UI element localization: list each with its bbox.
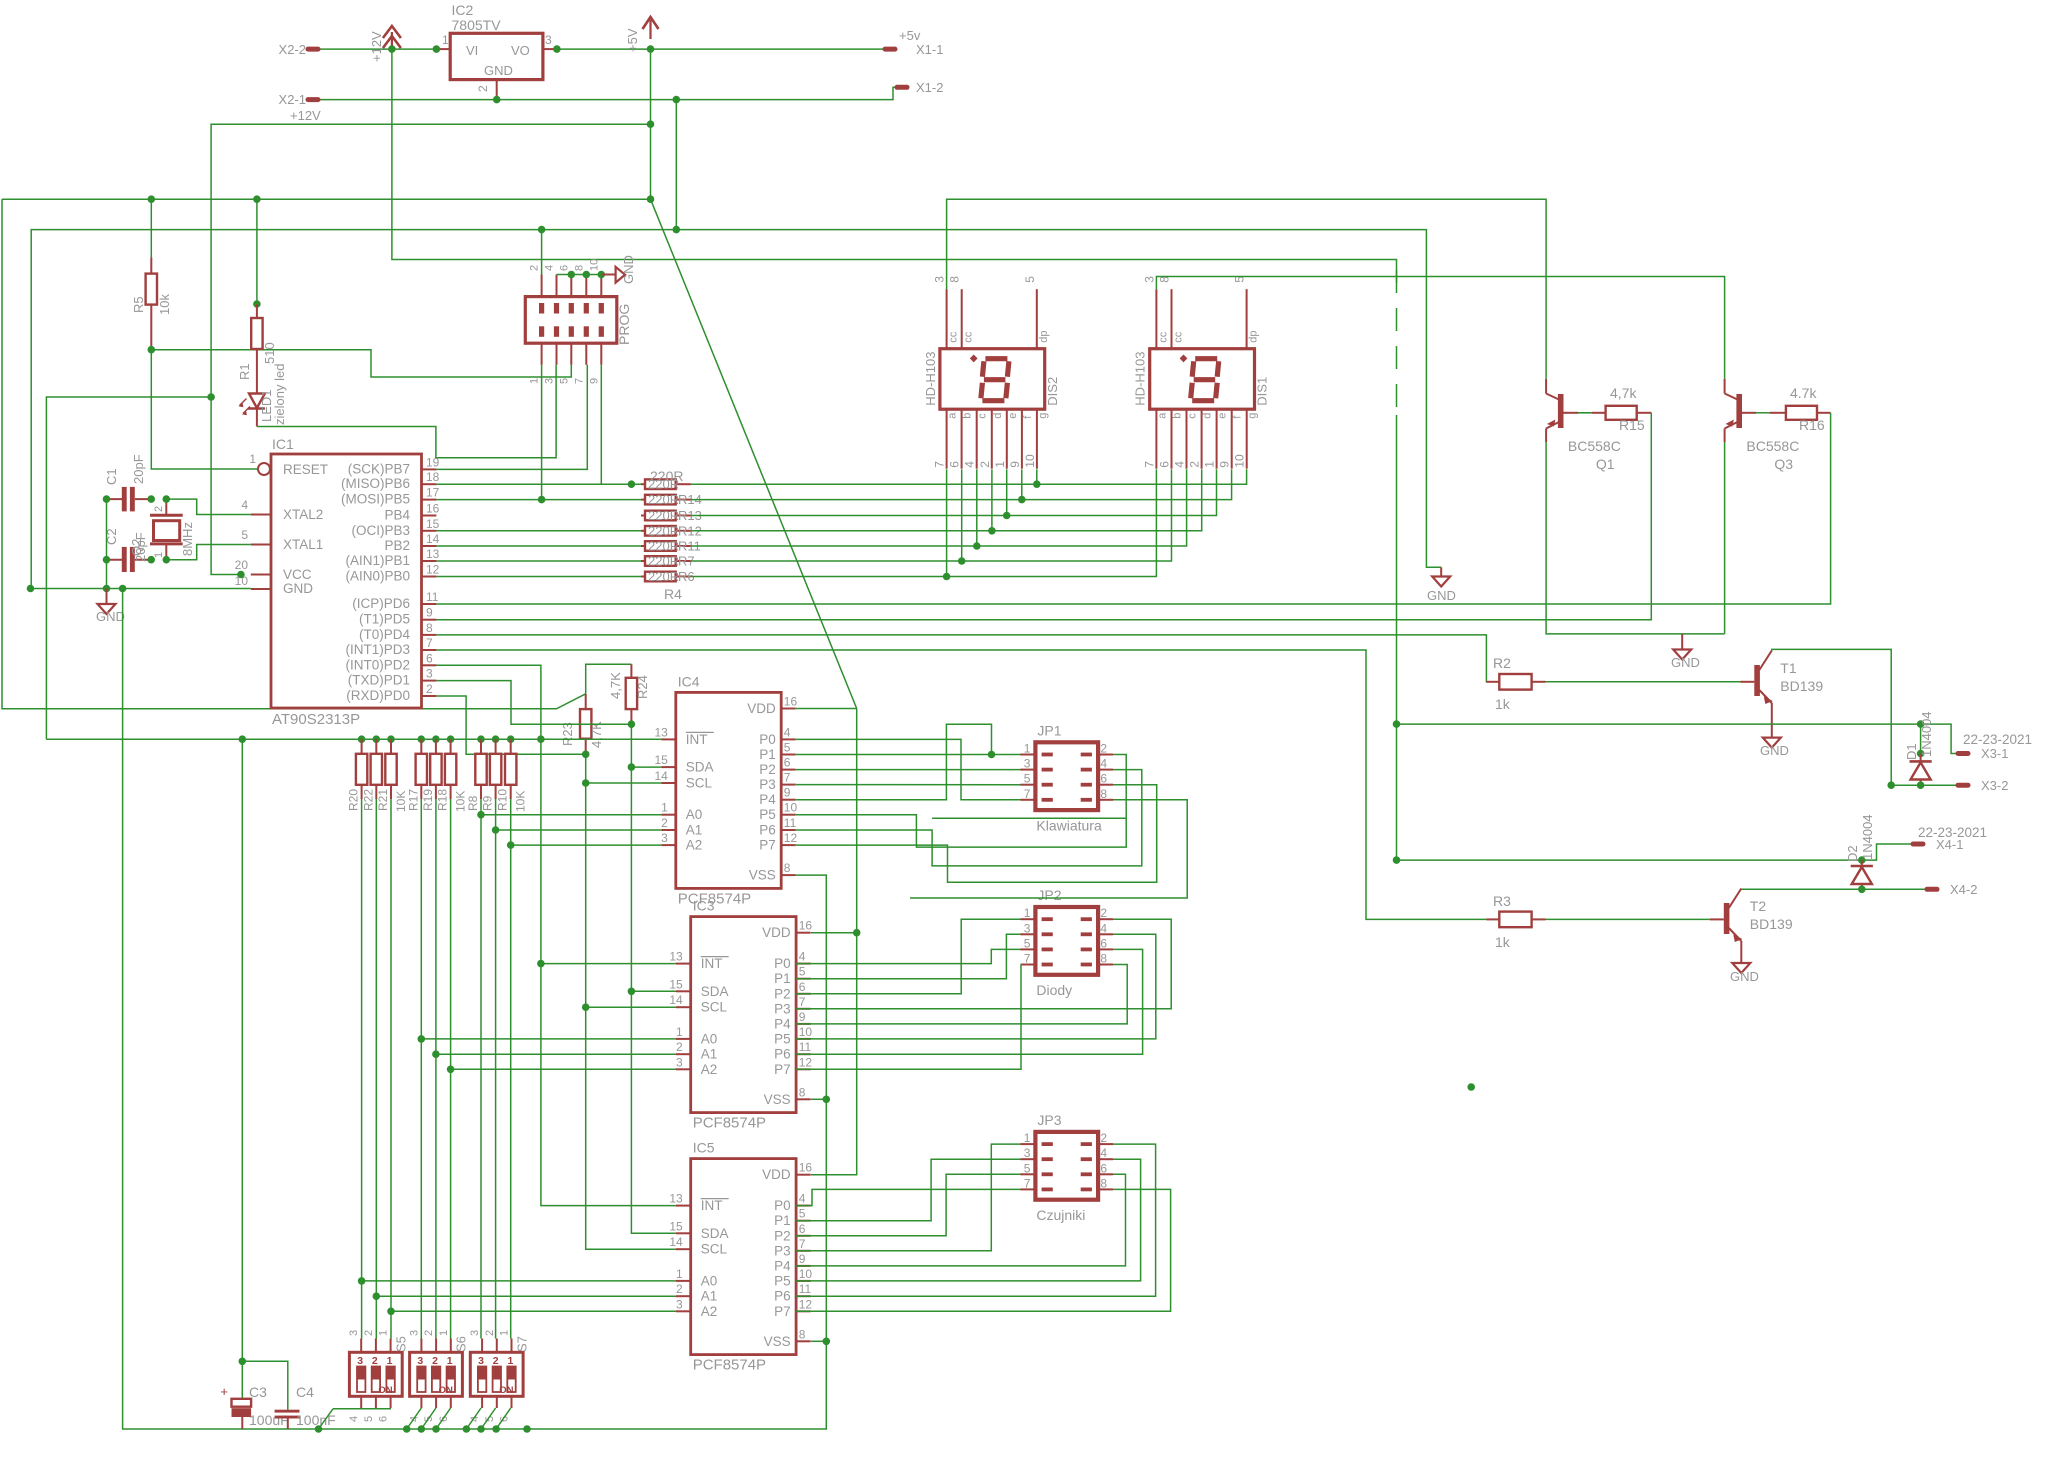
T2 base red stub — [1710, 918, 1724, 920]
svg-text:P3: P3 — [774, 1243, 791, 1258]
IC3 right pin 9 P4 — [796, 1023, 811, 1025]
wire IC5 P2 to JP3 pin5 — [796, 1174, 1021, 1236]
connector X3-1 — [1958, 751, 1968, 756]
svg-text:R22: R22 — [361, 789, 375, 811]
svg-text:S7: S7 — [514, 1336, 529, 1352]
svg-text:R4: R4 — [664, 586, 682, 602]
svg-text:1: 1 — [378, 1330, 390, 1336]
Q3 collector red stub — [1724, 379, 1726, 394]
IC5 right pin 4 P0 — [796, 1205, 811, 1207]
svg-text:3: 3 — [417, 1355, 423, 1367]
svg-text:7: 7 — [799, 1237, 806, 1251]
svg-text:11: 11 — [799, 1282, 812, 1296]
svg-text:7805TV: 7805TV — [452, 17, 502, 33]
S6 bottom pin 5 — [435, 1396, 437, 1408]
svg-text:14: 14 — [426, 532, 440, 546]
display DIS1 bottom pin 10 g — [1246, 409, 1248, 469]
svg-text:2: 2 — [676, 1040, 683, 1054]
S7 bottom pin 6 — [511, 1396, 513, 1408]
connector JP1 Klawiatura body — [1035, 742, 1098, 810]
svg-text:P6: P6 — [774, 1289, 791, 1304]
wire IC3 SCL stub wire — [586, 1006, 676, 1008]
supply +5V arrow symbol — [643, 17, 659, 29]
wire GND net X2-1 to X1-2 — [318, 87, 897, 99]
svg-text:PCF8574P: PCF8574P — [693, 1357, 766, 1374]
svg-text:DIS1: DIS1 — [1255, 377, 1270, 406]
svg-text:2: 2 — [1100, 1131, 1107, 1145]
wire DIS2 cc to Q1 collector — [947, 199, 1547, 378]
svg-text:3: 3 — [1142, 276, 1156, 283]
svg-text:C4: C4 — [296, 1384, 314, 1400]
junction R1 top — [253, 300, 261, 308]
IC2 pin 2 GND stub — [496, 80, 498, 100]
svg-text:6: 6 — [378, 1416, 390, 1422]
S6 top pin 2 — [435, 1339, 437, 1353]
svg-text:3: 3 — [661, 831, 668, 845]
display DIS1 bottom pin 4 c — [1186, 409, 1188, 469]
svg-text:10: 10 — [784, 801, 798, 815]
svg-text:13: 13 — [669, 1192, 683, 1206]
svg-text:4: 4 — [241, 498, 248, 512]
svg-text:4: 4 — [1100, 757, 1107, 771]
svg-text:a: a — [1156, 412, 1168, 419]
svg-text:100uF: 100uF — [249, 1412, 289, 1428]
svg-text:22-23-2021: 22-23-2021 — [1963, 732, 2032, 747]
svg-text:R3: R3 — [1493, 893, 1511, 909]
Q3 base wire to R16 — [1742, 412, 1756, 414]
resistor R23 4.7k — [585, 694, 587, 709]
JP2 left pin 3 — [1021, 933, 1036, 935]
svg-text:220R: 220R — [648, 554, 679, 569]
svg-text:19: 19 — [426, 455, 440, 469]
S7 bottom pin 5 — [496, 1396, 498, 1408]
junction IC2 VO — [553, 45, 561, 53]
JP1 right pin 6 — [1098, 784, 1113, 786]
svg-text:X1-1: X1-1 — [916, 42, 943, 57]
JP1 left pin 7 — [1021, 799, 1036, 801]
wire DIS2 segment pin drop row7 — [946, 469, 948, 576]
junction DIS2 segment tap row6 — [958, 557, 966, 565]
resistor R9 10k pullup — [492, 735, 500, 743]
wire IC4 P1 to JP1 pin1 — [796, 754, 1021, 756]
ground symbol GND at Q emitters — [1681, 634, 1683, 650]
display DIS2 bottom pin 10 g — [1036, 409, 1038, 469]
svg-text:13: 13 — [654, 725, 668, 739]
svg-text:dp: dp — [1248, 330, 1260, 342]
JP3 left pin 7 — [1021, 1188, 1036, 1190]
IC IC3 PCF8574P body — [691, 917, 796, 1113]
S7 top pin 2 — [496, 1339, 498, 1353]
svg-text:Q3: Q3 — [1774, 456, 1793, 472]
svg-text:VSS: VSS — [764, 1334, 791, 1349]
svg-text:RESET: RESET — [283, 462, 328, 477]
switch S7 DIP-3 body — [470, 1352, 523, 1396]
connector JP3 Czujniki body — [1035, 1132, 1098, 1200]
S5 top pin 2 — [375, 1339, 377, 1353]
IC1 right pin 9 (T1)PD5 — [422, 619, 437, 621]
wire +12V rail to X3-1 and D1 — [1397, 724, 1966, 753]
wire IC4 P4 jog above JP1 — [796, 724, 992, 799]
IC1 right pin 13 (AIN1)PB1 — [422, 560, 437, 562]
svg-text:3: 3 — [408, 1330, 420, 1336]
wire MOSI PB5 to 220R row2 — [436, 499, 641, 501]
wire IC4 VDD from diagonal — [796, 708, 857, 710]
display DIS2 bottom pin 7 a — [946, 409, 948, 469]
svg-text:510: 510 — [262, 342, 277, 364]
wire JP3 pin6 to IC5 P4 — [796, 1174, 1126, 1266]
svg-text:JP2: JP2 — [1037, 887, 1061, 903]
svg-text:R8: R8 — [466, 795, 480, 811]
S5 bottom pin 5 — [375, 1396, 377, 1408]
IC3 right pin 4 P0 — [796, 963, 811, 965]
svg-text:+12V: +12V — [369, 31, 384, 62]
svg-text:(MOSI)PB5: (MOSI)PB5 — [341, 492, 410, 507]
svg-text:BD139: BD139 — [1750, 916, 1793, 932]
svg-text:g: g — [1037, 413, 1049, 419]
svg-text:X4-2: X4-2 — [1950, 882, 1977, 897]
IC5 right pin 12 P7 — [796, 1310, 811, 1312]
svg-text:1: 1 — [993, 461, 1007, 468]
JP2 right pin 4 — [1098, 933, 1113, 935]
svg-text:12: 12 — [784, 831, 798, 845]
svg-text:P6: P6 — [774, 1047, 791, 1062]
svg-text:A2: A2 — [701, 1062, 718, 1077]
wire C3 top to C4 top — [242, 1361, 287, 1409]
resistor R1 510 — [256, 304, 258, 318]
svg-text:HD-H103: HD-H103 — [923, 352, 938, 406]
crystal Q2 8MHz — [165, 499, 167, 514]
svg-text:X3-2: X3-2 — [1981, 778, 2008, 793]
resistor 220R row2 — [641, 499, 645, 501]
svg-text:R9: R9 — [481, 795, 495, 811]
wire PD1 to R24 bottom SCL — [436, 681, 631, 725]
svg-text:3: 3 — [933, 276, 947, 283]
IC2 pin 3 stub — [543, 48, 557, 50]
svg-text:1: 1 — [499, 1330, 511, 1336]
svg-text:4: 4 — [799, 950, 806, 964]
IC4 left pin 13 INT — [661, 738, 675, 740]
junction IC3 A0 wire — [418, 1035, 426, 1043]
IC1 right pin 3 (TXD)PD1 — [422, 680, 437, 682]
connector X4-1 — [1913, 842, 1923, 847]
svg-text:C1: C1 — [104, 468, 119, 485]
svg-text:11: 11 — [799, 1040, 812, 1054]
svg-text:7: 7 — [1024, 1176, 1031, 1190]
svg-text:A2: A2 — [686, 838, 703, 853]
display DIS1 bottom pin 9 f — [1231, 409, 1233, 469]
wire segment bus row1 to displays — [691, 469, 1247, 484]
svg-text:3: 3 — [357, 1355, 363, 1367]
svg-text:VO: VO — [511, 43, 530, 58]
svg-text:SCL: SCL — [701, 1242, 728, 1257]
svg-text:8: 8 — [1100, 952, 1107, 966]
svg-text:R24: R24 — [635, 675, 650, 699]
ground symbol GND at PROG — [601, 274, 615, 276]
IC5 right pin 8 VSS — [796, 1340, 811, 1342]
svg-text:P3: P3 — [759, 777, 776, 792]
svg-text:5: 5 — [241, 528, 248, 542]
IC5 right pin 5 P1 — [796, 1220, 811, 1222]
svg-text:INT: INT — [701, 956, 723, 971]
svg-text:2: 2 — [1100, 742, 1107, 756]
S6 bottom pin 6 — [450, 1396, 452, 1408]
wire IC4 P7 to JP1 pin6 return — [796, 785, 1157, 883]
junction IC3 SCL — [582, 1003, 590, 1011]
svg-text:1k: 1k — [1495, 934, 1511, 950]
S6 top pin 1 — [450, 1339, 452, 1353]
junction +12V rail end — [1393, 856, 1401, 864]
junction R23 bottom — [582, 751, 590, 759]
resistor 220R row1 — [641, 483, 645, 485]
svg-text:10: 10 — [799, 1267, 813, 1281]
wire +12V dashed section — [1396, 270, 1398, 415]
svg-text:GND: GND — [283, 581, 313, 596]
connector X1-1 — [885, 47, 895, 52]
S5 bottom pin 4 — [360, 1396, 362, 1408]
wire +5V drop from arrow to distribution — [650, 49, 652, 199]
junction X3-2 line at collector drop — [1887, 781, 1895, 789]
PROG bottom pin 7 — [585, 343, 587, 365]
display DIS2 top pin 5 dp — [1036, 289, 1038, 349]
connector JP2 Diody body — [1035, 907, 1098, 975]
svg-text:PROG: PROG — [616, 304, 632, 345]
svg-text:T1: T1 — [1780, 660, 1797, 676]
junction INT at pullup rail — [537, 735, 545, 743]
resistor R10 10k pullup — [507, 735, 515, 743]
junction D1 cathode at X3-2 line — [1917, 781, 1925, 789]
svg-text:P0: P0 — [759, 732, 776, 747]
svg-text:4: 4 — [544, 265, 556, 271]
svg-text:GND: GND — [484, 63, 513, 78]
svg-text:7: 7 — [784, 771, 791, 785]
JP2 left pin 5 — [1021, 948, 1036, 950]
svg-text:PB4: PB4 — [384, 508, 410, 523]
svg-text:12: 12 — [426, 563, 440, 577]
junction +12V rail at vertical — [1393, 720, 1401, 728]
IC4 left pin 14 SCL — [661, 782, 675, 784]
svg-text:3: 3 — [545, 33, 552, 47]
wire IC3 VDD stub wire — [811, 932, 857, 934]
svg-text:(INT0)PD2: (INT0)PD2 — [345, 657, 410, 672]
svg-text:1: 1 — [529, 378, 541, 384]
junction IC4 A0 wire — [477, 811, 485, 819]
connector X3-2 — [1958, 783, 1968, 788]
svg-text:5: 5 — [558, 378, 570, 384]
wire +5V left rail to R23 diagonal — [2, 198, 649, 200]
junction IC3 INT — [537, 960, 545, 968]
wire GND rail left of IC1 — [31, 588, 251, 590]
IC3 right pin 6 P2 — [796, 993, 811, 995]
svg-text:VCC: VCC — [283, 567, 312, 582]
svg-text:3: 3 — [426, 667, 433, 681]
svg-text:4,7k: 4,7k — [1610, 385, 1637, 401]
wire DIS2 segment pin drop row6 — [961, 469, 963, 561]
JP3 right pin 4 — [1098, 1158, 1113, 1160]
wire DIS1 cc to Q3 collector — [1156, 277, 1724, 379]
svg-text:6: 6 — [426, 651, 433, 665]
svg-text:X2-2: X2-2 — [279, 42, 306, 57]
svg-text:S6: S6 — [454, 1336, 469, 1352]
wire DIS2 segment pin drop row1 — [1036, 469, 1038, 484]
svg-text:P1: P1 — [774, 971, 791, 986]
svg-text:6: 6 — [799, 1222, 806, 1236]
switch S5 DIP-3 body — [349, 1352, 402, 1396]
wire IC3 P1 to JP2 pin3 — [796, 934, 1021, 978]
svg-text:P1: P1 — [774, 1213, 791, 1228]
svg-text:9: 9 — [799, 1010, 806, 1024]
svg-text:3: 3 — [1024, 1146, 1031, 1160]
svg-text:R1: R1 — [237, 363, 252, 380]
junction D1 anode — [1917, 720, 1925, 728]
svg-text:3: 3 — [469, 1330, 481, 1336]
IC4 left pin 1 A0 — [661, 814, 675, 816]
svg-text:220R: 220R — [648, 569, 679, 584]
IC3 left pin 13 INT — [676, 963, 691, 965]
junction D2 anode — [1858, 856, 1866, 864]
ground symbol GND below C2 column — [106, 589, 108, 605]
resistor R19 10k pullup — [432, 735, 440, 743]
IC1 left pin XTAL2 — [251, 514, 271, 516]
junction extra rail dot — [523, 1425, 531, 1433]
svg-text:R19: R19 — [421, 789, 435, 811]
svg-text:1: 1 — [661, 801, 668, 815]
IC1 right pin 7 (INT1)PD3 — [422, 649, 437, 651]
PROG top pin 10 — [600, 275, 602, 297]
PROG top pin 6 — [570, 275, 572, 297]
IC5 right pin 9 P4 — [796, 1265, 811, 1267]
PROG top pin 8 — [585, 275, 587, 297]
svg-text:A0: A0 — [686, 807, 703, 822]
wire PD0 to R23 bottom SCL chain — [436, 696, 585, 754]
svg-text:JP3: JP3 — [1037, 1112, 1061, 1128]
wire RESET net to IC1 pin1 — [151, 350, 257, 469]
junction R5 bottom RESET net — [148, 346, 156, 354]
junction IC4 SDA — [628, 763, 636, 771]
IC1 right pin 8 (T0)PD4 — [422, 634, 437, 636]
svg-text:15: 15 — [654, 753, 668, 767]
svg-text:4: 4 — [799, 1192, 806, 1206]
svg-text:VDD: VDD — [747, 701, 776, 716]
resistor R15 4.7k — [1606, 406, 1637, 420]
svg-text:PCF8574P: PCF8574P — [693, 1115, 766, 1132]
junction GND line at x676 — [673, 96, 681, 104]
svg-text:GND: GND — [96, 609, 125, 624]
junction DIS2 segment tap row5 — [973, 542, 981, 550]
IC5 left pin 15 SDA — [676, 1232, 691, 1234]
wire IC3 SDA stub wire — [631, 990, 676, 992]
svg-text:4: 4 — [784, 725, 791, 739]
wire DIS2 segment pin drop row5 — [976, 469, 978, 546]
transistor Q1 BC558C — [1558, 394, 1564, 428]
svg-text:6: 6 — [1100, 772, 1107, 786]
wire IC3 INT stub wire — [541, 963, 676, 965]
svg-text:P5: P5 — [774, 1031, 791, 1046]
svg-text:9: 9 — [784, 786, 791, 800]
junction IC3 A2 wire — [447, 1066, 455, 1074]
junction IC2 VI — [433, 45, 441, 53]
svg-text:1: 1 — [438, 1330, 450, 1336]
wire S6 bottom diagonals — [407, 1408, 422, 1429]
svg-text:4,7K: 4,7K — [589, 721, 604, 748]
junction R1 top at +5V line — [253, 195, 261, 203]
svg-text:7: 7 — [1024, 952, 1031, 966]
svg-text:P0: P0 — [774, 956, 791, 971]
svg-text:8: 8 — [799, 1085, 806, 1099]
svg-text:8: 8 — [948, 276, 962, 283]
wire DIS2 segment pin drop row2 — [1021, 469, 1023, 499]
IC5 right pin 7 P3 — [796, 1250, 811, 1252]
svg-text:IC1: IC1 — [272, 436, 294, 452]
wire segment bus row3 to displays — [691, 469, 1217, 515]
IC3 left pin 15 SDA — [676, 990, 691, 992]
svg-text:8: 8 — [426, 621, 433, 635]
wire segment bus row5 to displays — [691, 469, 1187, 546]
wire JP2 pin4 to IC3 P5 — [796, 934, 1156, 1039]
IC3 right pin 10 P5 — [796, 1038, 811, 1040]
svg-text:P4: P4 — [759, 792, 776, 807]
display DIS2 HD-H103 body — [940, 349, 1045, 410]
wire PD6 to R16 — [436, 413, 1830, 604]
svg-text:220R: 220R — [648, 523, 679, 538]
wire +12V rail branch to D2 X4-1 — [1397, 859, 1862, 861]
svg-text:5: 5 — [1024, 772, 1031, 786]
PROG bottom pin 5 — [570, 343, 572, 365]
Q1 collector red stub — [1545, 379, 1547, 394]
wire VDD chain vertical — [811, 709, 857, 1175]
wire XTAL1 net — [166, 545, 251, 560]
svg-text:IC4: IC4 — [678, 673, 700, 689]
svg-text:JP1: JP1 — [1037, 722, 1061, 738]
wire SCL chain vertical — [586, 754, 676, 1249]
JP3 right pin 6 — [1098, 1173, 1113, 1175]
svg-text:c: c — [977, 413, 989, 419]
svg-text:8: 8 — [1100, 1176, 1107, 1190]
svg-text:VDD: VDD — [762, 925, 791, 940]
svg-text:3: 3 — [478, 1355, 484, 1367]
wire PD4 to R2 — [436, 635, 1499, 682]
svg-text:cc: cc — [948, 331, 960, 343]
svg-text:14: 14 — [669, 993, 683, 1007]
svg-text:T2: T2 — [1750, 898, 1767, 914]
PROG bottom pin 3 — [556, 343, 558, 365]
svg-text:3: 3 — [676, 1297, 683, 1311]
svg-text:7: 7 — [1142, 461, 1156, 468]
junction IC2 GND at X2-1 line — [493, 96, 501, 104]
svg-text:8: 8 — [1100, 787, 1107, 801]
JP1 right pin 8 — [1098, 799, 1113, 801]
svg-text:5: 5 — [1023, 276, 1037, 283]
junction IC4 A2 wire — [507, 841, 515, 849]
svg-text:P2: P2 — [774, 1228, 791, 1243]
IC1 right pin 11 (ICP)PD6 — [422, 603, 437, 605]
svg-text:18: 18 — [426, 470, 440, 484]
JP2 left pin 1 — [1021, 918, 1036, 920]
svg-text:P0: P0 — [774, 1198, 791, 1213]
svg-text:17: 17 — [426, 486, 440, 500]
svg-text:+5v: +5v — [899, 28, 921, 43]
junction MOSI — [538, 496, 546, 504]
supply +12V arrow symbol — [383, 26, 401, 38]
display DIS2 top pin 3 cc — [946, 289, 948, 349]
wire IC4 VSS to VSS chain — [123, 589, 827, 1430]
svg-text:13: 13 — [426, 547, 440, 561]
svg-text:20pF: 20pF — [131, 454, 146, 484]
svg-text:10K: 10K — [514, 791, 528, 812]
resistor 220R row6 — [641, 560, 645, 562]
svg-text:4: 4 — [963, 461, 977, 468]
svg-text:A1: A1 — [686, 823, 703, 838]
svg-text:3: 3 — [1024, 757, 1031, 771]
